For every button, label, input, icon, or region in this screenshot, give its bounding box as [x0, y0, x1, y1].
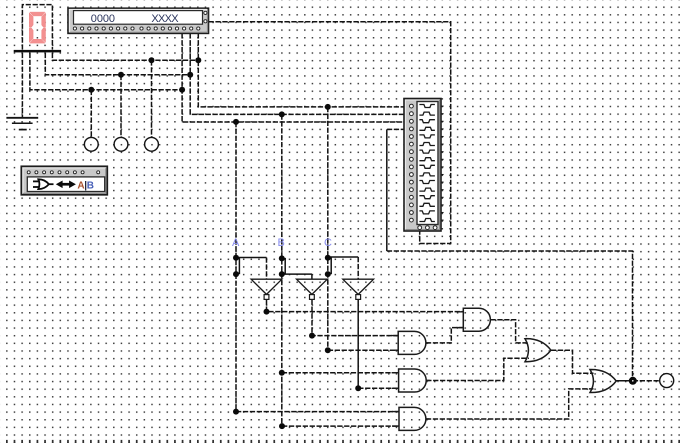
switch S1: [84, 137, 98, 151]
pattern generator waveform glyphs: [419, 105, 435, 222]
node C upper: [325, 255, 331, 261]
node wire2 end: [187, 72, 193, 78]
wire OR1 output to OR2 input1: [551, 350, 594, 373]
seven-segment digit 0: [29, 12, 45, 43]
inverter U1 (NOT A): [251, 279, 282, 299]
node NOT-C corner: [355, 385, 361, 391]
wire AND3 output to OR1 input2: [426, 358, 529, 380]
OR gate U9: [590, 369, 616, 392]
wire from 7seg base x52.4 to display-junction (wire1): [52, 53, 198, 61]
AND gate U4a: [456, 308, 494, 331]
wire inverter U2 input drop: [311, 274, 313, 279]
wire inverter U3 input hook: [328, 256, 358, 258]
wire drop to switch circle 3: [151, 60, 153, 137]
wire NOT-A to AND1 input1: [267, 300, 464, 312]
pattern generator right edge ticks: [441, 106, 444, 220]
node B upper: [279, 255, 285, 261]
wire AND2 output to AND1 input2: [426, 328, 463, 343]
svg-text:A: A: [232, 237, 240, 249]
wire DIP feedback bottom run to output junction: [387, 251, 633, 381]
node A tap: [233, 119, 239, 125]
node wire1/circle3: [149, 57, 155, 63]
wire NOT-C to AND3 input2: [358, 387, 398, 389]
switch S3: [145, 137, 159, 151]
node wire2/circle2: [118, 72, 124, 78]
svg-text:B: B: [87, 180, 94, 191]
inverter U3 (NOT C): [343, 279, 374, 299]
node B/AND3 junction: [279, 370, 285, 376]
seven-segment base bar: [14, 50, 61, 53]
wire ground lead x22.4: [21, 53, 23, 117]
hex display bottom pins: [73, 27, 200, 30]
ground: [6, 118, 38, 130]
node wire1 end: [195, 57, 201, 63]
wire inverter U1 input drop: [266, 258, 268, 280]
pattern generator bottom pins: [418, 226, 437, 230]
OR gate U8: [525, 339, 551, 362]
wire drop to switch circle 1: [90, 90, 92, 138]
wire display pin to DIP pin1: [198, 33, 406, 107]
AND gate U4c: [392, 369, 430, 392]
wire A to AND4 input1: [236, 411, 399, 413]
legend top pins: [27, 171, 100, 174]
node wire3/circle1: [88, 87, 94, 93]
node B/AND4 corner: [279, 423, 285, 429]
legend double arrow: [56, 181, 76, 189]
node A lower: [233, 271, 239, 277]
wire AND1 output to OR1 input1: [490, 320, 529, 343]
wire OR2 output to terminal: [633, 380, 660, 382]
svg-text:C: C: [324, 237, 332, 249]
legend component body: [21, 166, 107, 195]
wire drop to switch circle 2: [120, 75, 122, 138]
svg-text:B: B: [278, 237, 285, 249]
bottom edge tick row: [0, 439, 680, 441]
wire B vertical line: [281, 114, 283, 426]
inverter U2 (NOT B): [297, 279, 328, 299]
wire loop node A: [237, 258, 240, 273]
wire OR2 output solid segment: [616, 380, 633, 382]
node wire3 end: [179, 87, 185, 93]
solid wire segments: [236, 129, 633, 388]
node C tap: [325, 104, 331, 110]
wire DIP feedback vertical (solid): [386, 129, 388, 251]
hex display U6 body: [68, 8, 209, 33]
wire NOT-B to AND2 input1: [312, 300, 398, 336]
node A upper: [233, 255, 239, 261]
wire display right pin around to DIP bottom pin: [209, 22, 451, 244]
pattern generator left pins: [410, 104, 414, 222]
wire loop node B: [283, 259, 286, 274]
node C/AND2 corner: [325, 347, 331, 353]
svg-text:0000: 0000: [91, 13, 115, 25]
wire loop node C: [329, 258, 332, 274]
wire B to AND3 input1: [282, 372, 399, 374]
wire display pin to DIP pin3: [182, 33, 406, 122]
wire inverter U2 input hook: [282, 273, 312, 275]
wire A vertical line: [235, 122, 237, 412]
wire DIP pin4 feedback left part: [387, 128, 406, 130]
wire from 7seg base x45.3 (wire2): [45, 53, 190, 75]
node B lower: [279, 271, 285, 277]
node A/AND4 corner: [233, 409, 239, 415]
wire C to AND2 input2: [328, 349, 398, 351]
wire NOT-C output vertical (solid): [357, 300, 359, 389]
AND gate U4b: [391, 331, 429, 354]
node C lower: [325, 271, 331, 277]
node output junction: [629, 377, 637, 385]
legend OR-gate icon: [33, 179, 54, 189]
wire from 7seg base x29.9 (wire3): [30, 53, 182, 90]
node B tap: [279, 111, 285, 117]
switch S2: [114, 137, 128, 151]
wire AND4 output to OR2 input2: [426, 389, 594, 419]
svg-text:XXXX: XXXX: [151, 13, 179, 25]
wire display pin to DIP pin2: [190, 33, 406, 114]
wire B to AND4 input2: [282, 425, 399, 427]
wire inverter U3 input drop: [357, 257, 359, 279]
wire inverter U1 input hook: [236, 257, 267, 259]
seven-segment display U5 dashed body: [22, 5, 52, 50]
output terminal: [660, 374, 674, 388]
hex display right edge pins: [204, 11, 207, 23]
node NOT-B corner: [309, 333, 315, 339]
node NOT-A corner: [264, 309, 270, 315]
AND gate U4d: [392, 407, 429, 430]
pattern generator U7 body: [404, 99, 441, 232]
wire C vertical line: [327, 107, 329, 350]
